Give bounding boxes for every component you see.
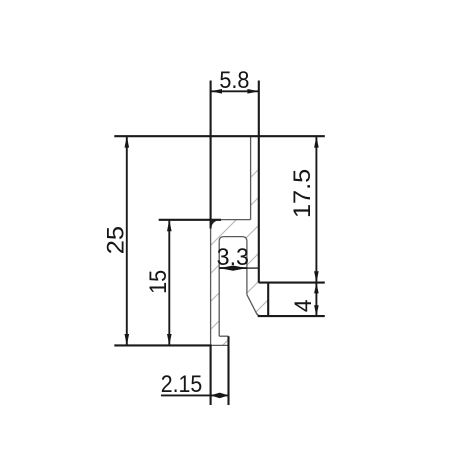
thick object/extension lines (114, 81, 324, 406)
slot right edge (246, 241, 248, 295)
arrows 25 (125, 136, 130, 147)
dimension lines (127, 91, 317, 395)
svg-text:25: 25 (103, 226, 129, 254)
arrows 5.8 (211, 89, 222, 94)
5.8 left extension (210, 81, 212, 229)
svg-text:2.15: 2.15 (161, 371, 203, 397)
15 extension / step line (159, 219, 221, 221)
arrows 4 (314, 283, 319, 294)
top face + extension line (114, 135, 324, 137)
dim 2.15 line (161, 394, 229, 396)
foot top + extension (259, 282, 325, 284)
arrowheads (125, 89, 319, 398)
foot bottom + extension (258, 315, 325, 317)
dim 17.5 line (315, 136, 317, 282)
dim 15 line (168, 220, 170, 346)
svg-text:5.8: 5.8 (219, 67, 249, 93)
arrows 17.5 (314, 136, 319, 147)
dim 4 line (315, 283, 317, 317)
tail bottom (211, 344, 229, 346)
slot left edge (218, 241, 220, 336)
arrows 3.3 bowtie (219, 266, 233, 271)
dim 3.3 tail (247, 267, 259, 269)
2.15 right extension + tail right edge (227, 336, 229, 405)
tube inner wall (250, 137, 252, 220)
svg-text:4: 4 (290, 299, 316, 312)
chamfer (247, 295, 260, 316)
arrows 15 (167, 220, 172, 231)
slot rounded top (219, 237, 247, 242)
corner wedge at step (211, 221, 217, 227)
foot right edge (267, 283, 269, 317)
fillet (211, 220, 220, 229)
profile outline thin (211, 137, 260, 346)
2.15 left extension (210, 345, 212, 405)
dim 3.3 line (219, 267, 247, 269)
arrows 2.15 bowtie (211, 393, 220, 399)
left edge (210, 229, 212, 346)
tail step (219, 335, 228, 337)
dim 5.8 line (211, 90, 259, 92)
svg-text:17.5: 17.5 (290, 169, 316, 218)
5.8 right extension + right outer edge (258, 81, 260, 283)
step surface (220, 219, 251, 221)
svg-text:15: 15 (145, 270, 171, 294)
hatching (section lines) (128, 100, 468, 356)
bottom face extension line (114, 344, 211, 346)
dim 25 line (126, 136, 128, 345)
svg-text:3.3: 3.3 (217, 244, 249, 270)
